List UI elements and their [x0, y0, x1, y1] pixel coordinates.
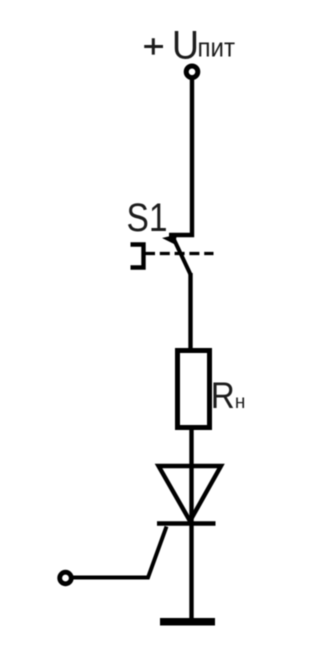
- svg-text:U: U: [172, 24, 199, 68]
- svg-text:R: R: [211, 375, 235, 416]
- svg-text:н: н: [235, 392, 246, 413]
- svg-text:S1: S1: [127, 196, 168, 240]
- svg-text:пит: пит: [198, 33, 236, 63]
